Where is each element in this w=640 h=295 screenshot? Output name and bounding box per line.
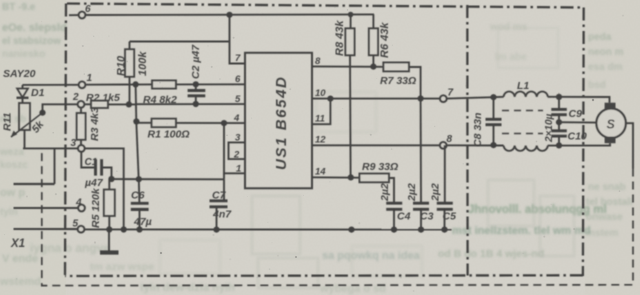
wire vertical node line (133, 84, 139, 179)
resistor R7 33R (380, 62, 421, 98)
wire motor case tap (559, 121, 597, 123)
inductor L1 top coil (504, 80, 548, 97)
wire filter top rail to motor (548, 94, 610, 103)
wire terminal2 to wiper (39, 104, 77, 115)
terminal 1 (79, 73, 93, 88)
wire filter bottom rail (447, 143, 610, 145)
capacitor C3 2u2 (406, 99, 434, 230)
wire pin5 node (136, 101, 245, 107)
capacitor C9 (551, 97, 582, 125)
wire external stub A (14, 148, 55, 184)
resistor R6 43k (369, 22, 391, 67)
resistor R5 120k (90, 179, 115, 230)
wire pin8 (312, 64, 383, 70)
wire ground rail (84, 226, 451, 232)
wire terminal3 node (23, 148, 124, 229)
resistor R2 1k5 (84, 92, 136, 108)
wire pin12 (312, 144, 440, 146)
terminal 8 (440, 134, 453, 149)
diode D1 SAY20 (3, 68, 45, 103)
terminal 5 (14, 219, 85, 233)
resistor R4 8k2 (143, 80, 245, 106)
wire output to filter (447, 94, 504, 100)
L1 core dashes and value (502, 111, 555, 144)
chain-line filter block boundary (466, 5, 469, 276)
label X1 (10, 238, 25, 250)
resistor R9 33R (359, 161, 398, 203)
capacitor C10 (551, 122, 587, 148)
capacitor C6 47u (131, 179, 152, 229)
capacitor C7 4n7 (210, 179, 233, 229)
capacitor C5 2u2 (430, 145, 457, 229)
IC pin 3-2 strap (229, 142, 246, 159)
dashed chassis/shield line (42, 151, 633, 286)
terminal 7 (440, 88, 454, 103)
resistor R8 43k (334, 15, 355, 178)
resistor R1 100R (136, 119, 245, 141)
motor S (596, 103, 625, 144)
capacitor C2 (188, 44, 206, 104)
terminal 3 (71, 138, 85, 152)
terminal 6 (69, 4, 91, 18)
wire supply rail from terminal 6 (85, 12, 374, 29)
ground symbol (100, 230, 119, 253)
capacitor C1 (81, 152, 114, 189)
capacitor C4 2u2 (379, 183, 411, 229)
wire node 179 (109, 176, 224, 182)
wire pin11 strap (312, 99, 330, 125)
wire motor to chassis (626, 123, 633, 168)
resistor R3 4k3 (77, 107, 101, 145)
pin number labels right (315, 56, 326, 178)
terminal 4 (14, 198, 85, 212)
pin number labels left (233, 53, 241, 175)
wire pin10 output (312, 95, 440, 101)
wire pin4-pin1 strap (224, 123, 245, 179)
IC US1 B654D (245, 53, 312, 189)
terminal 2 (72, 92, 84, 108)
wire terminal1 node (23, 81, 153, 87)
inductor L1 bottom coil (504, 146, 548, 151)
resistor R10 (116, 42, 230, 105)
capacitor C8 33n (472, 97, 502, 148)
wire pin7 supply drop (230, 15, 246, 64)
wire pin14 node (312, 174, 359, 180)
potentiometer R11 5k (2, 103, 48, 148)
chain-line circuit boundary (65, 4, 584, 277)
